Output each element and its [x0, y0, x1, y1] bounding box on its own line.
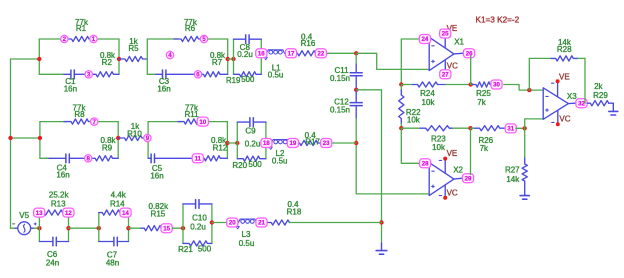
wire loop5 left	[38, 213, 40, 242]
svg-text:21: 21	[258, 220, 265, 227]
svg-text:VC: VC	[447, 61, 458, 70]
label L3 value	[239, 230, 255, 248]
wire R15 to block3	[172, 227, 183, 229]
resistor R13	[39, 210, 68, 215]
svg-text:25: 25	[442, 31, 449, 38]
label V5	[19, 211, 29, 220]
wire R28 right	[584, 58, 586, 103]
wire loop3 bottom left	[40, 157, 48, 159]
wire node31 to X3 plus	[516, 127, 525, 129]
wire X1 output lead	[454, 52, 464, 55]
pin VC X1	[447, 61, 458, 70]
wire R27 top lead	[524, 128, 526, 158]
svg-text:0.2u: 0.2u	[245, 139, 261, 148]
svg-text:C10: C10	[192, 214, 207, 223]
wire X2 VE stub	[444, 160, 446, 173]
resistor R15	[141, 226, 164, 231]
node 12	[63, 208, 74, 217]
pin VE X1	[447, 24, 458, 33]
svg-text:0.2u: 0.2u	[190, 223, 206, 232]
junction loop6 in	[97, 226, 101, 230]
node 32	[576, 99, 587, 108]
svg-text:2k: 2k	[594, 82, 603, 91]
pin VE X2	[447, 149, 458, 158]
node 10	[197, 117, 208, 126]
node 9	[144, 134, 151, 142]
pin marker X2 VE	[439, 159, 441, 161]
junction loop3 right mid	[116, 136, 120, 140]
wire X1 out down	[470, 56, 472, 85]
junction R28 in	[527, 88, 531, 92]
label C9 value	[245, 127, 261, 149]
junction block1 in	[231, 57, 235, 61]
svg-text:14: 14	[122, 210, 129, 217]
wire loop4 top right	[203, 121, 228, 123]
svg-text:10k: 10k	[422, 98, 436, 107]
wire R15 left lead	[129, 227, 142, 229]
wire node22 to C11	[321, 52, 356, 54]
wire loop3 top left	[40, 121, 67, 123]
pin dot X3 VE	[556, 79, 560, 83]
svg-text:17: 17	[288, 51, 295, 58]
svg-text:X1: X1	[454, 38, 464, 47]
node 30	[491, 80, 502, 89]
svg-text:10k: 10k	[407, 115, 421, 124]
svg-text:R17: R17	[305, 138, 320, 147]
label R7 value	[210, 51, 226, 67]
wire block3 right	[211, 204, 213, 244]
junction loop3 left mid	[38, 136, 42, 140]
svg-text:26: 26	[466, 50, 473, 57]
svg-text:R12: R12	[213, 143, 228, 152]
svg-text:R28: R28	[557, 45, 572, 54]
svg-text:18: 18	[263, 140, 270, 147]
resistor R9	[89, 156, 119, 161]
capacitor C1	[63, 70, 84, 79]
wire loop2 to block1	[228, 58, 234, 60]
label R24 value	[420, 89, 435, 107]
wire loop3 left	[39, 122, 41, 159]
resistor R18	[267, 220, 290, 225]
svg-text:500: 500	[248, 160, 262, 169]
svg-text:27: 27	[442, 72, 449, 79]
wire block1 left	[233, 39, 235, 74]
svg-text:R13: R13	[51, 199, 66, 208]
ground main	[376, 243, 387, 254]
svg-text:R6: R6	[185, 24, 196, 33]
wire block2 left	[236, 122, 238, 159]
svg-text:L3: L3	[242, 230, 251, 239]
svg-text:11: 11	[195, 156, 202, 163]
pin VE X3	[559, 73, 570, 82]
label R17 value	[305, 131, 321, 147]
node 21	[256, 218, 267, 227]
junction R27 top	[523, 126, 527, 130]
wire loop1 right	[118, 39, 120, 74]
capacitor C12	[350, 90, 362, 119]
wire R24 right lead	[446, 84, 471, 86]
resistor R1	[65, 36, 94, 41]
junction loop4 out	[225, 141, 229, 145]
wire loop2 bottom left	[147, 73, 155, 75]
wire loop5 to loop6	[69, 227, 99, 229]
svg-text:R25: R25	[476, 89, 491, 98]
label R10 value	[127, 122, 142, 138]
wire R25 left lead	[471, 84, 474, 86]
node 24	[419, 35, 430, 44]
capacitor C10	[183, 200, 212, 209]
node 22	[315, 49, 326, 58]
svg-text:R5: R5	[128, 44, 139, 53]
resistor R21	[183, 241, 212, 246]
node 28	[420, 159, 431, 168]
wire loop5 right	[68, 213, 70, 242]
label R1 value	[75, 18, 89, 33]
label C3 value	[157, 77, 170, 93]
pin marker X3 VC	[552, 121, 554, 123]
svg-text:VE: VE	[447, 149, 458, 158]
node 29	[462, 174, 473, 183]
wire X3 VC stub	[557, 110, 559, 123]
wire loop6 right	[128, 213, 130, 242]
svg-text:R2: R2	[102, 58, 113, 67]
label R2 value	[100, 51, 116, 67]
svg-text:16n: 16n	[150, 171, 163, 180]
wire R22 bot lead	[400, 124, 402, 129]
label R12 value	[211, 136, 228, 152]
junction R23 left	[399, 126, 403, 130]
label R15 value	[149, 202, 170, 219]
ground R27	[520, 194, 529, 199]
svg-text:C9: C9	[245, 127, 256, 136]
resistor R6	[174, 36, 204, 41]
node 11	[192, 154, 203, 163]
junction X2 out	[468, 126, 472, 130]
node 19	[287, 139, 298, 148]
wire X3 VE stub	[557, 83, 559, 97]
node 17	[285, 49, 296, 58]
junction block3 out	[210, 220, 214, 224]
junction loop1 left mid	[37, 57, 41, 61]
label R20 value	[232, 160, 262, 170]
resistor R14	[99, 210, 126, 215]
node 8	[85, 155, 92, 163]
wire R28 right seg	[578, 57, 585, 59]
resistor R24	[413, 82, 446, 87]
label C12 value	[330, 98, 350, 115]
wire C11 top lead	[355, 53, 357, 64]
wire loop4 right	[226, 122, 228, 159]
junction loop2 out	[226, 57, 230, 61]
wire X1 VC stub	[444, 60, 446, 70]
node 18	[261, 139, 272, 148]
node 13	[34, 208, 45, 217]
svg-text:R29: R29	[593, 91, 608, 100]
resistor R23	[420, 126, 453, 131]
label R8 value	[73, 103, 87, 118]
svg-text:R9: R9	[102, 143, 113, 152]
svg-text:VC: VC	[447, 188, 458, 197]
resistor R17	[296, 140, 322, 145]
resistor R20	[237, 156, 266, 161]
wire node30 to X3 minus	[504, 85, 543, 91]
svg-text:R21: R21	[178, 245, 193, 254]
label C8 value	[237, 43, 253, 59]
wire block2 right	[265, 122, 267, 159]
svg-text:R14: R14	[110, 199, 125, 208]
svg-text:9: 9	[146, 135, 150, 142]
wire loop1 top right	[89, 38, 119, 40]
label R25 value	[476, 89, 491, 107]
svg-text:16n: 16n	[56, 171, 69, 180]
svg-text:30: 30	[493, 82, 500, 89]
inductor L3	[239, 219, 257, 223]
text K1 K2	[476, 16, 520, 25]
label R19 value	[226, 75, 255, 85]
wire loop4 left	[147, 122, 149, 159]
label L2 value	[272, 149, 288, 165]
svg-text:16: 16	[258, 51, 265, 58]
svg-text:VC: VC	[559, 114, 570, 123]
junction R18 out	[379, 220, 383, 224]
svg-text:0.2u: 0.2u	[237, 50, 253, 59]
svg-text:R7: R7	[212, 58, 223, 67]
wire X3 output lead	[568, 102, 575, 104]
junction C11 C12	[354, 88, 358, 92]
wire row1 feed	[11, 58, 40, 60]
svg-text:4.4k: 4.4k	[111, 191, 127, 200]
wire R26 left lead	[471, 127, 475, 129]
capacitor C7	[99, 237, 129, 246]
junction row2 feed	[8, 136, 12, 140]
svg-text:R15: R15	[151, 210, 166, 219]
wire R29 to gnd	[609, 102, 614, 104]
svg-text:15: 15	[163, 225, 170, 232]
wire X2 output lead	[454, 177, 462, 180]
resistor R27	[522, 158, 527, 195]
svg-text:X2: X2	[453, 165, 463, 174]
svg-text:25.2k: 25.2k	[49, 191, 70, 200]
wire loop2 top right	[204, 38, 228, 40]
op-amp X2	[429, 163, 454, 196]
node 16	[256, 49, 267, 58]
svg-text:19: 19	[290, 140, 297, 147]
node 7	[91, 118, 98, 126]
label R18 value	[287, 200, 302, 217]
wire loop2 right	[227, 39, 229, 74]
resistor R25	[473, 82, 492, 87]
svg-text:20: 20	[229, 220, 236, 227]
node 31	[505, 124, 516, 133]
svg-text:V5: V5	[19, 211, 29, 220]
wire node28 feedback	[401, 128, 420, 163]
resistor R19	[234, 72, 262, 77]
resistor R26	[475, 126, 505, 131]
label X3	[567, 92, 577, 101]
wire block1 right	[260, 39, 262, 74]
wire block3 to node20	[212, 222, 227, 224]
svg-text:500: 500	[241, 75, 255, 84]
wire loop2 top left	[147, 38, 178, 40]
label C4 value	[56, 163, 69, 179]
wire ground bus	[356, 90, 381, 243]
svg-text:R16: R16	[301, 39, 316, 48]
label C7 value	[106, 251, 119, 268]
label R11 value	[184, 103, 199, 118]
svg-text:29: 29	[465, 175, 472, 182]
svg-text:24n: 24n	[46, 258, 59, 267]
svg-text:R18: R18	[287, 208, 302, 217]
pin dot X3 VC	[556, 122, 560, 126]
svg-text:16n: 16n	[64, 85, 77, 94]
capacitor C5	[148, 154, 192, 163]
wire node24 feedback	[401, 39, 420, 85]
label R27 value	[505, 165, 520, 184]
label R23 value	[431, 135, 446, 153]
resistor R11	[178, 119, 203, 124]
resistor R28	[551, 56, 578, 61]
capacitor C11	[350, 64, 362, 90]
junction R24 left	[399, 82, 403, 86]
wire V5 to node13	[34, 227, 39, 229]
node 2	[61, 35, 68, 43]
node 15	[161, 224, 172, 233]
svg-text:R20: R20	[232, 161, 247, 170]
svg-text:10k: 10k	[432, 143, 446, 152]
wire V5 left lead	[11, 227, 15, 229]
label C6 value	[46, 250, 59, 267]
junction block2 in	[235, 141, 239, 145]
svg-text:R11: R11	[184, 110, 199, 119]
label R9 value	[100, 136, 116, 152]
svg-text:0.15n: 0.15n	[330, 74, 350, 83]
label L1 value	[268, 64, 284, 80]
wire input bus vertical	[10, 59, 12, 228]
capacitor C6	[39, 237, 68, 246]
wire loop1 bottom left	[39, 73, 63, 75]
pin VC X2	[447, 188, 458, 197]
label R22 value	[406, 108, 421, 124]
label R21 value	[178, 244, 212, 254]
label R5 value	[128, 37, 139, 53]
pin dot X2 VC	[443, 196, 447, 200]
inductor L1	[267, 50, 285, 54]
svg-text:24: 24	[422, 36, 429, 43]
node 14	[120, 208, 131, 217]
wire C12 down to X2 plus	[356, 119, 429, 194]
svg-text:12: 12	[65, 210, 72, 217]
inductor L2	[272, 140, 290, 144]
svg-text:0.15n: 0.15n	[330, 105, 350, 114]
label R26 value	[478, 136, 493, 153]
wire block3 left	[182, 204, 184, 244]
svg-text:31: 31	[507, 126, 514, 133]
label R16 value	[301, 33, 316, 49]
svg-text:R1: R1	[76, 24, 87, 33]
svg-text:7: 7	[93, 119, 97, 126]
svg-text:16n: 16n	[157, 85, 170, 94]
svg-text:R19: R19	[226, 76, 240, 85]
label C5 value	[150, 164, 163, 180]
wire loop2 left	[146, 39, 148, 74]
svg-text:0.5u: 0.5u	[239, 239, 255, 248]
svg-text:0.5u: 0.5u	[272, 157, 288, 166]
svg-text:13: 13	[36, 210, 43, 217]
wire loop3 right	[117, 122, 119, 159]
capacitor C4	[46, 154, 85, 163]
wire to X3 plus jog	[525, 119, 544, 128]
resistor R22	[399, 90, 404, 124]
wire loop1 left	[38, 39, 40, 74]
pin marker L3	[236, 227, 239, 229]
capacitor C9	[237, 118, 266, 127]
svg-text:22: 22	[318, 51, 325, 58]
pin marker X2 VC	[439, 195, 441, 197]
node 20	[227, 218, 238, 227]
label R28 value	[557, 38, 572, 54]
wire R23 right lead	[453, 127, 471, 129]
node 23	[321, 139, 332, 148]
node 5	[200, 35, 207, 43]
junction node23 tie	[354, 141, 358, 145]
label C10 value	[190, 214, 207, 232]
ground R29	[609, 103, 618, 115]
node 3	[85, 71, 92, 79]
junction loop1 right mid	[117, 57, 121, 61]
wire to X1 plus	[356, 53, 429, 69]
wire R28 left seg	[529, 57, 551, 59]
wire R28 left	[528, 58, 530, 90]
svg-text:500: 500	[198, 244, 212, 253]
svg-text:8: 8	[87, 156, 91, 163]
wire X1 VE stub	[444, 37, 446, 48]
node 27	[440, 70, 451, 79]
resistor R5	[119, 56, 147, 61]
wire row2 feed	[11, 137, 40, 139]
capacitor C3	[155, 70, 194, 79]
pin marker L2	[269, 147, 272, 149]
wire R24 left lead	[401, 84, 412, 86]
svg-text:K1=3 K2=-2: K1=3 K2=-2	[476, 16, 520, 25]
svg-text:14k: 14k	[506, 175, 520, 184]
node 6	[194, 71, 201, 79]
svg-text:X3: X3	[567, 92, 577, 101]
capacitor C8	[234, 35, 262, 44]
op-amp X1	[429, 37, 454, 70]
label R29 value	[593, 82, 608, 100]
svg-text:3: 3	[87, 72, 91, 79]
node 4	[166, 51, 173, 59]
pin marker L1	[264, 57, 267, 59]
label C11 value	[330, 66, 350, 83]
source V5	[13, 222, 37, 235]
svg-text:R27: R27	[505, 165, 520, 174]
label C1 value	[64, 77, 77, 93]
svg-text:R8: R8	[74, 110, 85, 119]
svg-text:48n: 48n	[106, 258, 119, 267]
node 1	[90, 35, 97, 43]
resistor R16	[291, 51, 321, 56]
label R13 value	[49, 191, 70, 209]
svg-text:R10: R10	[127, 129, 142, 138]
resistor R10	[118, 135, 148, 140]
junction loop5 out	[66, 226, 70, 230]
resistor R12	[198, 156, 228, 161]
resistor R7	[198, 72, 228, 77]
node 25	[440, 29, 451, 38]
svg-text:7k: 7k	[477, 98, 486, 107]
wire loop4 to block2	[227, 142, 237, 144]
